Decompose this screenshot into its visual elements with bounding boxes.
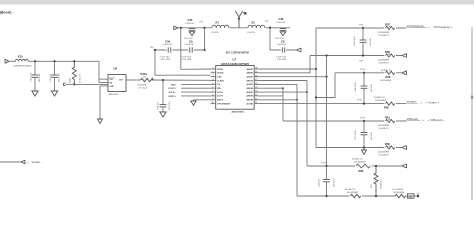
svg-text:CAP: CAP xyxy=(217,76,222,79)
svg-text:GPIO/RESET: GPIO/RESET xyxy=(217,103,231,105)
svg-text:+ Vmain +: + Vmain + xyxy=(426,100,440,104)
svg-text:C45: C45 xyxy=(188,18,193,22)
svg-text:R105: R105 xyxy=(70,77,72,83)
svg-text:E3: E3 xyxy=(252,20,256,24)
svg-text:1uF 16V: 1uF 16V xyxy=(371,132,373,140)
node C37 bottom xyxy=(363,146,365,148)
node riser A join xyxy=(315,68,317,70)
wire pin20 to riser A xyxy=(259,68,316,70)
svg-text:10: 10 xyxy=(212,102,214,104)
node on rail xyxy=(34,60,36,62)
U7 right pin names xyxy=(246,68,253,106)
wire U8 out xyxy=(126,79,141,81)
svg-text:C9: C9 xyxy=(189,40,193,44)
svg-text:CS: CS xyxy=(217,84,221,86)
capacitor C14 xyxy=(50,61,61,91)
svg-text:50.9kR 1%: 50.9kR 1% xyxy=(379,35,390,37)
ground xyxy=(160,112,166,117)
svg-text:AGND: AGND xyxy=(247,102,254,105)
riser row3 feed xyxy=(316,73,335,98)
svg-text:U8: U8 xyxy=(114,66,118,70)
wire pin15 to riser xyxy=(259,87,283,89)
wire U8 gnd pin down xyxy=(100,86,108,117)
node TP6 xyxy=(203,27,205,29)
svg-text:AIN0P: AIN0P xyxy=(247,68,254,71)
fuse box F1 xyxy=(405,194,418,199)
U7 left pin stubs xyxy=(211,69,216,104)
capacitor C9 series xyxy=(181,40,194,62)
svg-text:Vmain -: Vmain - xyxy=(32,160,42,164)
wire to U8 pin2 xyxy=(99,82,108,84)
node C16 tap xyxy=(162,79,164,81)
svg-text:1uF 16V: 1uF 16V xyxy=(371,84,373,92)
riser node to cap row right xyxy=(269,28,271,50)
riser from RF rail down to cap row xyxy=(204,28,206,50)
riser to U7 pin1 xyxy=(181,28,211,70)
svg-text:02024WER: 02024WER xyxy=(347,192,359,194)
svg-text:TP10: TP10 xyxy=(360,69,366,71)
node C36 top xyxy=(362,27,364,29)
top grey toolbar strip xyxy=(0,0,474,5)
svg-text:50.9kR 1%: 50.9kR 1% xyxy=(374,97,385,99)
capacitor C45 xyxy=(184,18,195,40)
svg-text:CI-0705: CI-0705 xyxy=(247,32,256,34)
svg-text:2.2uF 16V: 2.2uF 16V xyxy=(276,56,287,58)
svg-text:R62: R62 xyxy=(359,169,364,173)
svg-text:6: 6 xyxy=(213,87,214,89)
svg-text:02024WER: 02024WER xyxy=(354,161,366,163)
svg-text:+ V(Boost) +: + V(Boost) + xyxy=(428,118,445,122)
node TP7 xyxy=(269,27,271,29)
svg-text:16V 10%: 16V 10% xyxy=(169,101,171,110)
svg-text:3: 3 xyxy=(213,75,214,77)
svg-text:15: 15 xyxy=(255,87,257,89)
wire cap row left xyxy=(155,49,205,51)
svg-text:10% X5R: 10% X5R xyxy=(182,59,192,61)
svg-text:1% 1watt: 1% 1watt xyxy=(138,86,147,89)
wire RF rail xyxy=(178,27,290,29)
wire R60 row xyxy=(316,147,402,149)
svg-text:AIN2N: AIN2N xyxy=(246,87,253,90)
svg-text:C8: C8 xyxy=(281,40,285,44)
inductor E4 xyxy=(211,20,229,33)
capacitor C46 xyxy=(275,17,286,40)
ground under C46 xyxy=(280,32,286,36)
svg-text:ADS131M04IPWR: ADS131M04IPWR xyxy=(221,62,250,66)
svg-text:14: 14 xyxy=(255,90,257,93)
svg-text:E4: E4 xyxy=(216,20,220,24)
svg-text:1R: 1R xyxy=(143,77,146,79)
svg-text:19: 19 xyxy=(255,71,257,73)
svg-text:R55: R55 xyxy=(384,106,389,110)
capacitor C16 xyxy=(158,80,172,112)
ground arrow at U7 xyxy=(191,100,196,106)
node row left xyxy=(154,49,156,51)
bottom-left net arrow Vmain- xyxy=(0,160,42,164)
node C36 bottom xyxy=(362,54,364,56)
svg-text:C44: C44 xyxy=(165,40,170,44)
svg-text:16V 10%: 16V 10% xyxy=(334,178,336,187)
node R79 top xyxy=(375,165,377,167)
svg-text:CI-0705: CI-0705 xyxy=(211,32,220,34)
ground xyxy=(32,91,38,96)
node C38 top xyxy=(363,72,365,74)
node C37 top xyxy=(363,120,365,122)
svg-text:DOUT«: DOUT« xyxy=(169,88,177,90)
svg-text:1uF 16V: 1uF 16V xyxy=(370,38,372,46)
svg-text:SCLK«: SCLK« xyxy=(169,92,177,94)
svg-text:C38 0.1uF: C38 0.1uF xyxy=(355,82,357,92)
svg-text:7: 7 xyxy=(213,91,214,93)
jumper terminal bracket xyxy=(64,83,66,85)
wire pin13 to riser C xyxy=(259,95,283,97)
svg-text:16V 10%: 16V 10% xyxy=(59,73,61,82)
wire VBoost row xyxy=(283,120,406,122)
svg-text:C15 4.7uF: C15 4.7uF xyxy=(31,72,33,82)
riser A vertical xyxy=(315,28,317,148)
scrollbar thumb smudge xyxy=(471,96,473,100)
capacitor C39 xyxy=(319,166,336,196)
svg-text:AIN0N: AIN0N xyxy=(246,72,253,75)
wire Vmain row from pin11 xyxy=(259,103,406,105)
svg-text:50.9kR 1%: 50.9kR 1% xyxy=(379,62,390,64)
capacitor C37 xyxy=(355,121,373,148)
ground under C45 xyxy=(189,32,195,36)
resistor R63 xyxy=(345,189,362,198)
resistor R56 xyxy=(380,70,396,82)
riser E vertical to bottom row xyxy=(296,84,298,196)
antenna xyxy=(235,11,247,28)
svg-text:C16 1uF: C16 1uF xyxy=(158,101,160,110)
svg-text:9: 9 xyxy=(213,98,214,100)
svg-text:49.9k 1%: 49.9k 1% xyxy=(80,74,82,83)
node riser B join xyxy=(325,76,327,78)
wire R104 to U7 pin4 xyxy=(152,79,211,81)
riser B vertical xyxy=(326,56,328,167)
svg-text:12: 12 xyxy=(255,98,257,100)
wire R105 to U7 pin5 xyxy=(74,83,108,85)
node join xyxy=(296,99,298,101)
wire pin17 to riser D xyxy=(259,80,307,82)
wire pin19 corner up to row2 xyxy=(259,56,310,73)
svg-text:16V 10%: 16V 10% xyxy=(39,73,41,82)
flag arrow row2 xyxy=(402,54,407,58)
resistor R79 vertical xyxy=(371,166,383,196)
svg-text:DRDY: DRDY xyxy=(217,100,224,102)
node join xyxy=(282,87,284,89)
regulator U8 xyxy=(108,66,126,96)
resistor R105 vertical xyxy=(70,61,82,83)
capacitor C8 series xyxy=(276,40,287,62)
net label Vmain+ xyxy=(406,100,439,105)
svg-text:02024WER: 02024WER xyxy=(375,100,387,102)
node below R105 xyxy=(73,83,75,85)
resistor R61 xyxy=(378,115,396,129)
resistor R60 xyxy=(378,142,396,157)
capacitor C15 xyxy=(31,61,42,91)
svg-text:2.2uF 16V: 2.2uF 16V xyxy=(181,56,192,58)
svg-text:C46: C46 xyxy=(279,17,284,21)
input flag arrow left xyxy=(5,59,9,63)
svg-text:C36 0.1uF: C36 0.1uF xyxy=(354,36,356,46)
svg-text:02024WER: 02024WER xyxy=(378,32,390,34)
node end xyxy=(417,195,419,197)
svg-text:17: 17 xyxy=(255,79,257,81)
inductor E3 xyxy=(247,20,265,33)
svg-text:20: 20 xyxy=(255,68,257,70)
svg-text:02024WER: 02024WER xyxy=(378,151,390,153)
svg-text:DGND: DGND xyxy=(217,73,224,75)
svg-text:50.4kR 1%: 50.4kR 1% xyxy=(345,189,356,191)
SPI net label DIN xyxy=(171,84,211,86)
riser C vertical xyxy=(282,88,284,121)
ground arrow below U8 xyxy=(98,117,103,124)
svg-text:AIN1N: AIN1N xyxy=(246,79,253,82)
resistor R104 xyxy=(137,72,154,90)
svg-text:02024WER: 02024WER xyxy=(380,80,392,82)
svg-text:GND: GND xyxy=(110,86,115,88)
wire pin18 to riser B xyxy=(259,76,326,78)
svg-text:TP11: TP11 xyxy=(357,100,363,102)
svg-text:10% X5R: 10% X5R xyxy=(161,59,171,61)
svg-text:4: 4 xyxy=(213,78,214,81)
svg-text:50.4kR 1%: 50.4kR 1% xyxy=(379,154,390,156)
node join xyxy=(306,91,308,93)
svg-text:0.0047uF: 0.0047uF xyxy=(277,44,287,46)
svg-text:R104: R104 xyxy=(141,72,148,76)
svg-text:02024WER: 02024WER xyxy=(378,59,390,61)
flag arrow R62 row xyxy=(402,164,407,168)
svg-text:AIN3N: AIN3N xyxy=(246,95,253,98)
node DVDD riser xyxy=(180,27,182,29)
net label V(Boost) xyxy=(406,117,445,122)
ferrite bead E10 xyxy=(14,55,32,68)
svg-text:C14 1uF: C14 1uF xyxy=(50,73,52,82)
wire bottom row xyxy=(297,195,395,197)
svg-text:AIN1P: AIN1P xyxy=(247,76,254,79)
svg-text:0.0047uF: 0.0047uF xyxy=(185,23,195,25)
svg-text:8: 8 xyxy=(213,95,214,97)
U7 right pin stubs xyxy=(254,69,259,104)
U7 right pin numbers xyxy=(255,68,257,105)
svg-text:10% X5R: 10% X5R xyxy=(277,59,287,61)
wire pin16 to riser E xyxy=(259,83,297,85)
U7 left pin names xyxy=(217,69,231,106)
SPI net label DOUT xyxy=(169,88,211,90)
svg-text:16: 16 xyxy=(255,83,257,85)
svg-text:E10: E10 xyxy=(18,55,23,59)
wire row3 xyxy=(335,72,402,74)
wire pin14 to riser xyxy=(259,91,307,93)
capacitor C36 xyxy=(354,28,372,56)
IC U7 ADS131M04 xyxy=(216,51,255,113)
svg-text:TP13: TP13 xyxy=(321,162,327,164)
riser D vertical xyxy=(306,81,308,167)
svg-text:02024WER: 02024WER xyxy=(378,125,390,127)
svg-text:AIN3P: AIN3P xyxy=(247,91,254,94)
svg-text:BLM18PG471SN1D: BLM18PG471SN1D xyxy=(14,65,32,67)
svg-text:DOUT: DOUT xyxy=(217,96,224,98)
svg-text:DVDD: DVDD xyxy=(217,69,224,71)
svg-text:TP12: TP12 xyxy=(360,117,366,119)
wire main left rail xyxy=(28,60,99,62)
svg-text:U7: U7 xyxy=(233,57,237,61)
svg-text:1: 1 xyxy=(213,68,214,70)
node C38 bottom xyxy=(363,102,365,104)
svg-text:50.9kR 1%: 50.9kR 1% xyxy=(381,70,392,72)
svg-text:2.2uF 16V: 2.2uF 16V xyxy=(160,56,171,58)
svg-text:02024WER: 02024WER xyxy=(393,192,405,194)
svg-text:18: 18 xyxy=(255,75,257,77)
svg-text:REFIN: REFIN xyxy=(246,100,253,102)
svg-text:ADC CURR MONITOR: ADC CURR MONITOR xyxy=(226,51,250,54)
resistor R58 xyxy=(378,50,396,65)
svg-text:13: 13 xyxy=(255,95,257,97)
svg-text:DRDY«: DRDY« xyxy=(169,96,177,98)
SPI net label SCLK xyxy=(169,92,211,94)
svg-text:50.4kR 1%: 50.4kR 1% xyxy=(379,128,390,130)
resistor R62 xyxy=(352,158,372,173)
wire to U8 pin1 xyxy=(99,78,108,80)
wire R62 row xyxy=(307,165,402,167)
svg-text:C37 0.1uF: C37 0.1uF xyxy=(355,130,357,140)
wire rail corner down to U8 xyxy=(98,61,100,82)
ground xyxy=(51,91,57,96)
wire xyxy=(9,60,16,62)
svg-text:0.0047uF: 0.0047uF xyxy=(185,44,195,46)
resistor R64 xyxy=(392,189,405,198)
wire VCharging row xyxy=(316,27,406,29)
stub up xyxy=(417,193,419,196)
wire row2 xyxy=(310,55,402,57)
stub to jumper terminal xyxy=(66,83,75,85)
svg-text:50.4kR 1%: 50.4kR 1% xyxy=(381,179,383,189)
node riser B join row2 xyxy=(325,54,327,56)
svg-text:SCLK: SCLK xyxy=(217,92,223,94)
svg-text:2: 2 xyxy=(213,71,214,73)
wire cap row right xyxy=(270,49,297,51)
ground arrow below row xyxy=(362,148,367,155)
svg-text:1% 100mR: 1% 100mR xyxy=(392,189,403,191)
node C39 top xyxy=(325,165,327,167)
riser from cap row down to U7 CAP pin xyxy=(155,50,211,75)
flag arrow R60 row xyxy=(402,146,407,150)
svg-text:V(Charging) +: V(Charging) + xyxy=(434,25,453,29)
svg-text:50.4kR 1%: 50.4kR 1% xyxy=(352,158,363,160)
node R79 bottom xyxy=(375,195,377,197)
svg-text:11: 11 xyxy=(255,102,257,104)
SPI net label DRDY xyxy=(169,96,211,98)
capacitor C38a xyxy=(355,73,373,104)
svg-text:v(Boost) -: v(Boost) - xyxy=(0,11,13,15)
right page border line xyxy=(471,27,473,200)
node cap row xyxy=(203,49,205,51)
flag arrow row3 xyxy=(402,71,407,75)
svg-text:0.0047uF: 0.0047uF xyxy=(163,44,173,46)
svg-text:5: 5 xyxy=(213,83,214,85)
svg-text:C38 1uF: C38 1uF xyxy=(319,178,321,187)
svg-text:0.0047uF: 0.0047uF xyxy=(276,22,286,24)
net label V(Charging)+ xyxy=(406,24,453,29)
U7 left pin numbers xyxy=(212,68,214,105)
RF flag arrow left xyxy=(174,26,178,30)
svg-text:DIN«: DIN« xyxy=(171,84,177,86)
output flag arrow right xyxy=(297,48,302,52)
wire pin12 to riser xyxy=(259,99,297,101)
svg-text:ADM7160: ADM7160 xyxy=(109,93,120,96)
resistor R57 xyxy=(378,22,396,37)
wire U7 gnd pin xyxy=(194,99,211,101)
resistor R55 xyxy=(374,97,396,109)
svg-text:0.00047R: 0.00047R xyxy=(137,85,147,87)
svg-text:AIN2P: AIN2P xyxy=(247,83,254,86)
svg-text:CLKIN: CLKIN xyxy=(217,80,224,82)
node riser A tap xyxy=(315,96,317,98)
svg-text:DIN: DIN xyxy=(217,88,221,90)
svg-text:R56: R56 xyxy=(386,75,391,79)
svg-text:ADS131M04: ADS131M04 xyxy=(232,111,245,114)
node C39 bottom xyxy=(325,195,327,197)
capacitor C44 series xyxy=(160,40,173,62)
node on rail xyxy=(73,60,75,62)
node on rail xyxy=(53,60,55,62)
